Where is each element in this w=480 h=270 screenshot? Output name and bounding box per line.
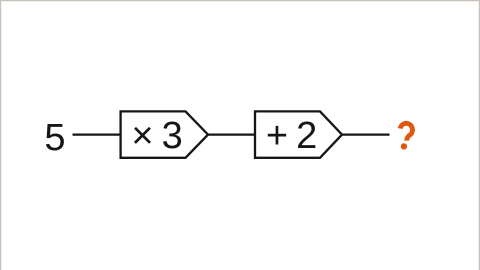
svg-text:5: 5 [44,117,65,159]
svg-text:+: + [266,115,288,157]
svg-text:2: 2 [296,115,317,157]
wire machine 2 to output [342,133,390,135]
svg-text:3: 3 [162,115,183,157]
wire input to machine 1 [73,133,122,135]
frame border (top/left/right) [0,0,480,1]
wire machine 1 to machine 2 [208,133,255,135]
machine box 2 (add 2) [255,111,342,157]
machine box 1 (multiply by 3) [121,111,208,157]
svg-text:×: × [131,115,153,157]
output question mark [400,123,412,149]
